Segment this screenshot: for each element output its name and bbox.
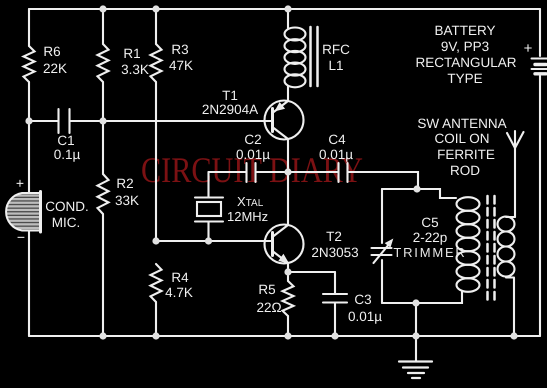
wire osc row right <box>348 172 418 189</box>
svg-text:R2: R2 <box>116 176 133 191</box>
capacitor C3 0.01u <box>323 294 347 303</box>
svg-text:+: + <box>16 175 24 191</box>
resistor R4 4.7K <box>151 264 162 302</box>
svg-text:R4: R4 <box>171 270 189 285</box>
wire tank bottom edge <box>382 292 462 303</box>
wire right rail lower <box>539 76 541 336</box>
capacitor C2 0.01u <box>247 163 256 182</box>
svg-text:2-22p: 2-22p <box>413 230 448 245</box>
wire R1 top lead <box>102 9 104 44</box>
wire ground stub <box>415 336 417 361</box>
wire emitter-C3 link <box>288 271 335 273</box>
wire base row left <box>29 120 58 122</box>
resistor R3 47K <box>151 44 162 82</box>
svg-text:−: − <box>17 229 25 245</box>
wire junction-T2 link <box>287 172 289 224</box>
wire tank top edge <box>382 189 456 198</box>
wire tank left upper <box>381 189 383 243</box>
antenna coil primary winding <box>457 197 480 292</box>
svg-text:FERRITE: FERRITE <box>437 147 495 162</box>
wire R3-R4 link <box>155 82 157 241</box>
svg-text:COIL ON: COIL ON <box>434 131 489 146</box>
inductor RFC L1 <box>285 27 318 87</box>
svg-text:MIC.: MIC. <box>52 215 81 230</box>
transistor T2 2N3053 <box>265 225 304 264</box>
svg-text:BATTERY: BATTERY <box>434 23 495 38</box>
wire left rail mid <box>28 82 30 193</box>
svg-text:C2: C2 <box>244 132 261 147</box>
svg-text:COND.: COND. <box>45 199 89 214</box>
svg-text:SW ANTENNA: SW ANTENNA <box>417 116 506 131</box>
svg-text:C5: C5 <box>421 215 438 230</box>
svg-text:33K: 33K <box>115 193 139 208</box>
svg-text:0.1µ: 0.1µ <box>54 147 81 162</box>
svg-text:9V, PP3: 9V, PP3 <box>441 39 489 54</box>
transistor T1 2N2904A <box>265 101 304 140</box>
svg-text:T1: T1 <box>222 88 238 103</box>
antenna coil secondary winding <box>498 217 516 278</box>
wire C3 bottom lead <box>334 303 336 336</box>
svg-text:C4: C4 <box>328 132 346 147</box>
wire tank left lower <box>381 260 383 303</box>
svg-text:C3: C3 <box>354 292 371 307</box>
wire T2 base row <box>156 240 271 242</box>
wire R1-R2 link <box>102 82 104 174</box>
svg-text:C1: C1 <box>57 133 74 148</box>
svg-text:RFC: RFC <box>322 42 350 57</box>
svg-text:4.7K: 4.7K <box>165 285 193 300</box>
battery B1 9V PP3 <box>532 59 547 74</box>
wire osc row mid <box>256 171 338 173</box>
trimmer capacitor C5 plates <box>372 248 392 255</box>
wire crystal bottom lead <box>207 222 209 241</box>
svg-text:R6: R6 <box>43 44 60 59</box>
svg-text:TYPE: TYPE <box>447 71 482 86</box>
wire C3 top lead <box>334 272 336 293</box>
svg-text:2N2904A: 2N2904A <box>202 102 258 117</box>
svg-text:0.01µ: 0.01µ <box>348 309 382 324</box>
trimmer capacitor C5 arrow <box>374 243 391 263</box>
wire R4 bottom lead <box>155 302 157 336</box>
svg-text:R5: R5 <box>258 282 275 297</box>
svg-text:ROD: ROD <box>450 163 480 178</box>
crystal XTAL 12MHz body <box>197 202 221 216</box>
ground symbol <box>399 360 432 362</box>
wire antenna lead <box>514 148 516 217</box>
svg-text:R1: R1 <box>123 46 140 61</box>
wire right rail upper <box>539 9 541 56</box>
svg-text:R3: R3 <box>171 42 188 57</box>
resistor R1 3.3K <box>98 44 109 82</box>
wire left rail upper <box>28 9 30 46</box>
svg-text:TRIMMER: TRIMMER <box>393 245 466 260</box>
condenser microphone MIC <box>6 192 40 233</box>
svg-text:0.01µ: 0.01µ <box>236 147 270 162</box>
wire tank ground lead <box>415 303 417 336</box>
resistor R5 22ohm <box>283 281 294 316</box>
svg-text:RECTANGULAR: RECTANGULAR <box>415 55 516 70</box>
svg-text:0.01µ: 0.01µ <box>319 147 353 162</box>
resistor R6 22K <box>24 46 35 82</box>
svg-text:2N3053: 2N3053 <box>311 245 358 260</box>
wire base row right <box>70 120 272 122</box>
wire osc row left <box>209 171 247 173</box>
svg-text:47K: 47K <box>169 58 193 73</box>
svg-text:L1: L1 <box>328 58 343 73</box>
wire RFC top lead <box>287 9 289 28</box>
svg-text:22K: 22K <box>43 61 67 76</box>
svg-text:12MHz: 12MHz <box>227 209 268 224</box>
wire R3 top lead <box>155 9 157 44</box>
antenna symbol <box>507 131 524 148</box>
wire ground rail <box>29 335 540 337</box>
wire RFC-T1 link <box>287 86 289 100</box>
wire R5 bottom lead <box>287 316 289 336</box>
wire top +9V rail <box>29 8 540 10</box>
wire left rail lower <box>28 230 30 336</box>
svg-text:+: + <box>524 40 533 57</box>
crystal XTAL 12MHz plates <box>195 198 223 222</box>
wire T2 emitter lead <box>287 264 289 281</box>
wire T1-junction link <box>287 140 289 172</box>
resistor R2 33K <box>98 174 109 214</box>
svg-text:22Ω: 22Ω <box>256 300 281 315</box>
wire secondary bottom lead <box>513 278 515 336</box>
wire R2 bottom lead <box>102 214 104 336</box>
ferrite rod core <box>488 196 495 300</box>
wire crystal top lead <box>207 172 209 197</box>
capacitor C4 0.01u <box>339 163 348 182</box>
svg-text:T2: T2 <box>326 229 342 244</box>
svg-text:3.3K: 3.3K <box>121 62 149 77</box>
capacitor C1 0.1u <box>59 109 70 133</box>
